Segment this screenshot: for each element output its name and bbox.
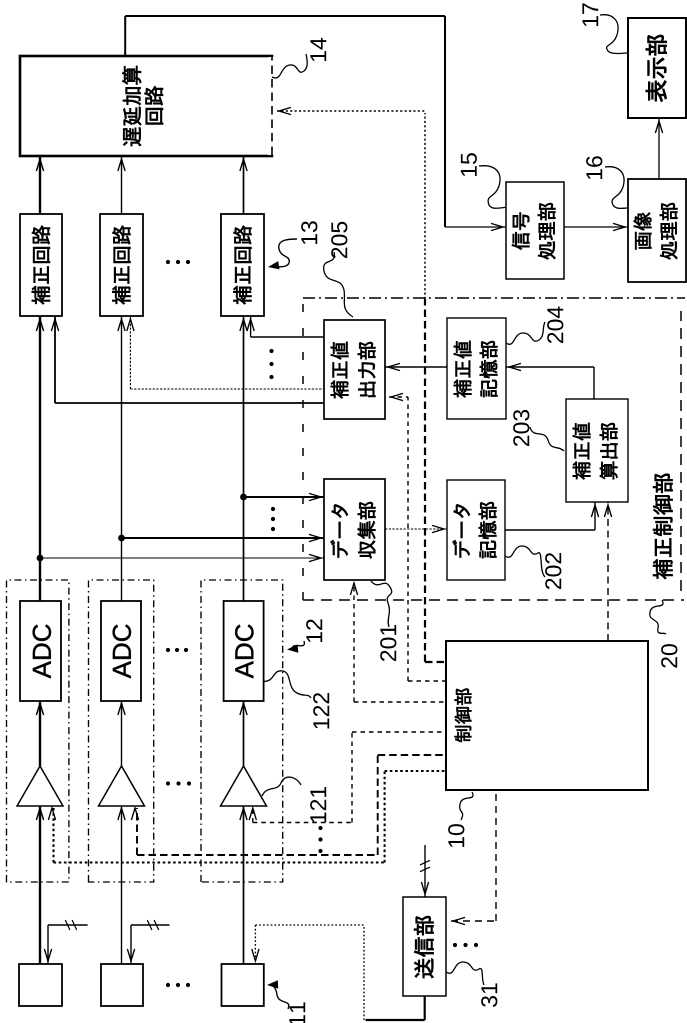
label 121 [310,787,326,822]
arrowhead dashed into data collection left [350,583,357,595]
transducer element square #3 [222,964,264,1006]
ADC box #2 [101,601,141,701]
arrowhead into data collection from ch2 [309,534,321,541]
ellipsis on data collection input lines [271,527,275,531]
bold dashed control line to amp2 gain input [378,754,446,756]
junction dot channel1 to data collector [37,555,44,562]
correction controller label text (補正制御部) [653,474,672,579]
ellipsis on correction value lines [269,375,273,379]
arrowhead into amp3 gain [249,808,256,820]
fine dashed control line to amp3 gain input [352,731,446,733]
receiver channel dash-dot box 12 #1 [7,580,69,882]
arrowhead into amp1 [36,808,43,820]
wire square1 to amp1 [39,806,41,964]
wire amp2 to ADC2 [121,701,123,766]
arrowhead into delay adder ch3 [240,159,247,171]
wire amp3 to ADC3 [243,701,245,766]
leader squiggle for 121 [262,777,301,796]
amplifier triangle #2 [99,766,145,806]
arrowhead into calculator left [591,505,598,517]
leader squiggle for 12 with arrow [292,641,304,649]
transmitter box 31 (送信部) [403,897,446,996]
arrowhead corr value into circuit1 [51,319,58,331]
break mark on transmitter stub [420,867,430,872]
leader squiggle for 13 with arrow [272,239,297,267]
wire correction memory to correction output [385,366,447,368]
arrowhead dashed into calculator [604,505,611,517]
correction controller dashed box 20 (bottom edge) [680,311,682,591]
junction dot channel2 to data collector [118,535,125,542]
arrowhead into correction circuit 3 [240,319,247,331]
arrowhead dashed into transmitter bottom [453,917,465,924]
correction circuit box #3 (補正回路) [221,214,264,316]
label 122 [313,693,329,728]
label 16 [586,156,602,179]
label 20 [661,644,677,668]
leader squiggle for 204 [506,322,545,344]
correction controller dashed box 20 (left edge) [303,599,684,601]
wire ADC1 to correction circuit 1 [39,316,41,601]
break mark on element1 stub [65,920,70,930]
arrowhead into data collection from ch3 [309,493,321,500]
arrowhead into element3 right edge [252,949,259,961]
label 13 [301,221,317,244]
label 203 [513,410,529,446]
dashed wire control unit to transmitter [495,790,497,921]
arrowhead corr value into circuit3 [247,319,254,331]
label 15 [461,153,477,176]
label 201 [380,625,396,661]
arrowhead dashed into correction output bottom [391,393,403,400]
junction dot channel3 to data collector [240,494,247,501]
arrowhead into correction memory bottom [509,363,521,370]
transmit stub from transmitter top (cut line) [424,845,426,897]
arrowhead transmit stub into transmitter [421,882,428,894]
arrowhead into element1 right edge [44,949,51,961]
label 31 [481,983,497,1007]
bold dotted control line to amp1 gain input [385,770,446,772]
transducer element square #2 [101,964,143,1006]
label 205 [331,222,347,258]
correction circuit box #2 (補正回路) [100,214,143,316]
ellipsis between correction circuits [166,260,170,264]
wire image processor to display [658,118,660,179]
leader squiggle for 201 [371,581,392,627]
break mark on element2 stub [147,920,152,930]
label 202 [545,553,561,589]
transducer element square #1 [19,964,62,1006]
receiver channel dash-dot box #2 [89,580,154,882]
dotted control line to delay adder (from control bus) [424,113,426,299]
leader squiggle for 122 [263,671,311,698]
arrowhead into correction output bottom [388,363,400,370]
arrowhead into amp1 gain [48,808,55,820]
wire delay adder to signal processor [124,16,126,56]
display box 17 (表示部) [628,18,686,118]
wire amp1 to ADC1 [39,701,41,766]
leader squiggle for 11 with arrow [271,985,289,1009]
ellipsis on control bus lines [318,849,322,853]
wire junction ch1 down to data collection box [40,557,324,559]
arrowhead into ADC1 [36,703,43,715]
wire correction value output to correction circuit 1 [55,402,324,404]
fine dashed control line to data collection box [354,701,446,703]
wire junction ch2 down to data collection box [122,537,325,539]
leader squiggle for 202 [505,546,545,577]
arrowhead into delay adder ch2 [118,159,125,171]
wire calculator to correction memory [593,367,595,399]
arrowhead corr value into circuit2 [127,319,134,331]
wire square3 to amp3 [243,806,245,964]
transmit stub at element1 (cut line) [47,925,49,964]
arrowhead into image processor top [613,223,625,230]
data collection box 201 (データ収集部) [324,479,385,580]
wire correction value output to correction circuit 2 (dotted) [130,388,324,390]
ellipsis between amplifiers [166,781,170,785]
leader squiggle for 20 [650,600,666,634]
correction value output box 205 (補正値出力部) [324,320,385,419]
transmit stub at element2 (cut line) [130,925,132,964]
label 17 [582,3,598,26]
arrowhead into correction circuit 2 [118,319,125,331]
wire correction circuit 1 to delay adder [39,156,41,214]
arrowhead into display left [655,121,662,133]
wire ADC3 to correction circuit 3 [243,316,245,601]
arrowhead into ADC2 [118,703,125,715]
arrowhead into data collection from ch1 [309,554,321,561]
receiver channel dash-dot box #3 [201,580,283,882]
ellipsis more transmitters [453,943,457,947]
wire signal processor to image processor [564,226,628,228]
dashed wire control unit to calculator [607,502,609,641]
wire junction ch3 down to data collection box [244,496,325,498]
leader squiggle for 205 [324,252,353,317]
transmitter output to element3: thick segments [424,996,426,1020]
arrowhead into signal processor top [491,223,503,230]
arrowhead into element2 right edge [127,949,134,961]
correction value memory box 204 (補正値記憶部) [447,318,506,419]
ADC box #3 [224,601,264,701]
arrowhead into ADC3 [240,703,247,715]
leader squiggle for 16 [605,167,628,209]
arrowhead dotted into delay adder bottom [279,107,291,114]
wire data memory to calculator [505,529,595,531]
label 10 [448,824,464,847]
wire ADC2 to correction circuit 2 [121,316,123,601]
leader squiggle for 203 [530,427,564,451]
arrowhead into amp3 [240,808,247,820]
correction controller box dash-dot right edge 205 side [303,297,685,299]
bold dashed control line along y=425 to control unit [424,299,426,662]
correction controller dashed box 20 (top edge) [302,299,304,600]
arrowhead into delay adder ch1 [36,159,43,171]
arrowhead into correction circuit 1 [36,319,43,331]
delay-adder circuit box 14 (遅延加算回路) [20,56,272,156]
leader squiggle for 31 [446,962,484,985]
leader squiggle for 15 [479,166,506,209]
wire square2 to amp2 [121,806,123,964]
arrowhead into amp2 [118,808,125,820]
amplifier triangle #1 [17,766,63,806]
ellipsis between ADCs [166,648,170,652]
label 204 [547,307,563,344]
label 14 [310,38,326,61]
wire correction circuit 3 to delay adder [243,156,245,214]
image processor box 16 (画像処理部) [628,179,686,282]
wire correction circuit 2 to delay adder [121,156,123,214]
data memory box 202 (データ記憶部) [447,480,505,580]
amplifier triangle #3 [221,766,267,806]
arrowhead into data memory top [432,525,444,532]
correction value calculator box 203 (補正値算出部) [566,399,628,502]
transmitter output to element3: dotted segments [363,925,365,1020]
ellipsis between transducer squares [166,983,170,987]
leader squiggle for 10 [460,792,473,820]
label 11 [289,1002,305,1023]
leader squiggle for 17 [600,15,628,54]
ADC box #1 [20,601,61,701]
arrowhead into amp2 gain [131,808,138,820]
wire data collection to data memory (dotted) [385,528,447,530]
leader squiggle for 14 [272,54,307,78]
wire correction value output to correction circuit 3 [251,336,324,338]
fine dashed control line to correction output (arrow up) [389,396,408,398]
control unit box 10 (制御部) [446,641,648,790]
correction circuit box 13 #1 (補正回路) [20,214,62,316]
label 12 [306,619,322,642]
signal processor box 15 (信号処理部) [506,182,564,279]
